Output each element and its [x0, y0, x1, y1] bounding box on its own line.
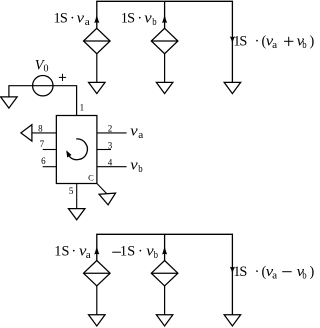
svg-text:1S·vb: 1S·vb: [121, 11, 157, 28]
voltage source V0: [33, 76, 53, 96]
current source I3 (1S va): [84, 261, 111, 286]
current source I4 (-1S vb): [151, 261, 178, 286]
svg-text:5: 5: [69, 186, 74, 196]
ground left of V0: [1, 97, 18, 108]
plus sign in label: [284, 37, 293, 46]
svg-text:V0: V0: [35, 58, 49, 75]
current source I1 (1S va): [84, 28, 111, 53]
wire I1 to ground: [96, 54, 98, 83]
svg-text:1S·va: 1S·va: [54, 244, 91, 261]
current arrow top right branch: [230, 36, 235, 43]
IC block U1: [56, 116, 97, 184]
pin 2 wire: [97, 132, 127, 134]
svg-text:va: va: [130, 124, 144, 141]
ground under I3: [89, 315, 106, 326]
wire I4 to ground: [164, 286, 166, 315]
plus polarity sign: [59, 74, 66, 81]
minus sign in label: [282, 271, 292, 273]
svg-text:1: 1: [80, 103, 85, 113]
svg-text:2: 2: [108, 123, 113, 133]
pin 6 wire: [43, 166, 57, 168]
current arrow bottom right branch: [230, 267, 235, 274]
ground top right branch: [224, 82, 241, 93]
rotation arrow inside U1: [69, 139, 87, 160]
current arrow I4: [162, 246, 167, 255]
ground bottom right branch: [224, 315, 241, 326]
ground under I4: [156, 315, 173, 326]
svg-text:8: 8: [38, 123, 43, 133]
wire top bus: [97, 1, 233, 82]
svg-text:3: 3: [108, 140, 113, 150]
svg-text:4: 4: [108, 157, 113, 167]
svg-text:vb: vb: [297, 264, 307, 281]
pin 3 wire: [97, 149, 111, 151]
wire I3 to ground: [96, 286, 98, 315]
wire V0 loop: [9, 86, 77, 116]
svg-text:C: C: [88, 173, 94, 183]
svg-text:vb: vb: [130, 157, 142, 174]
pin 5 wire: [76, 184, 78, 209]
svg-text:7: 7: [40, 139, 45, 149]
wire top branch vb: [164, 1, 166, 28]
wire I2 to ground: [164, 54, 166, 83]
svg-text:1S·va: 1S·va: [54, 11, 91, 28]
wire C pin diagonal: [97, 184, 107, 194]
ground at C pin: [99, 193, 116, 205]
minus sign of -1S: [112, 251, 121, 253]
current arrow I2: [162, 15, 167, 24]
pin 8 wire: [32, 132, 56, 134]
wire bottom bus: [97, 234, 233, 314]
pin 4 wire: [97, 166, 127, 168]
current arrow I3: [94, 246, 99, 255]
svg-text:1S·vb: 1S·vb: [120, 244, 158, 261]
current arrow I1: [94, 15, 99, 24]
wire bottom branch vb: [164, 234, 166, 260]
current source I2 (1S vb): [151, 28, 178, 53]
ground at pin 5: [68, 209, 85, 220]
ground under I2: [156, 82, 173, 93]
pin 7 wire: [43, 149, 57, 151]
svg-text:vb: vb: [297, 34, 307, 51]
svg-text:6: 6: [41, 156, 46, 166]
ground under I1: [89, 82, 106, 93]
ground at pin 8: [21, 125, 32, 141]
